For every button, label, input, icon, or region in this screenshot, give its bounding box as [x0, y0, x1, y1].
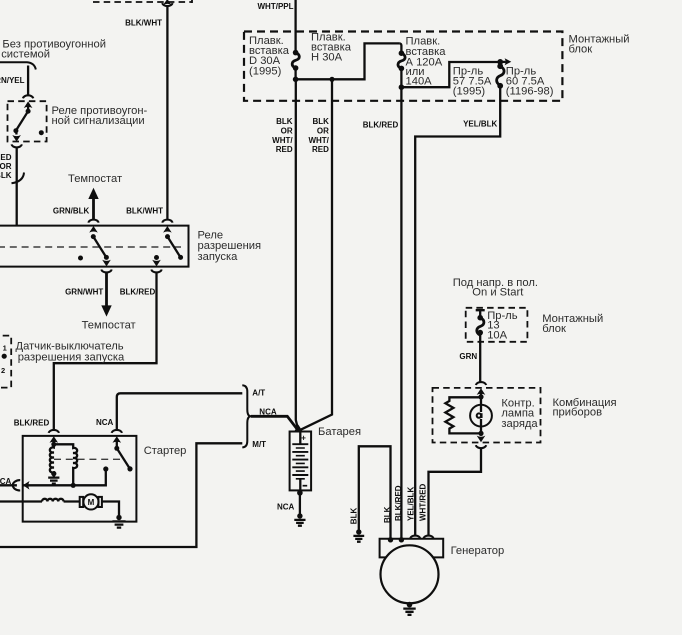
svg-text:OR: OR [0, 162, 12, 171]
svg-text:YEL/BLK: YEL/BLK [463, 119, 497, 128]
labels Контр. лампа заряда [501, 397, 538, 430]
connector into cluster [476, 382, 486, 395]
svg-text:BLK: BLK [0, 171, 12, 180]
connector BLK/RED into starter [49, 430, 59, 443]
wire RED OR BLK down to relay [16, 148, 18, 226]
generator body circle [381, 545, 439, 603]
wire BLK/RED to starter [54, 273, 157, 430]
bracket top-left [0, 62, 36, 69]
starter centerline dashed [54, 458, 121, 460]
ground battery [294, 513, 305, 525]
svg-text:2: 2 [1, 366, 5, 375]
svg-text:Темпостат: Темпостат [82, 320, 136, 332]
resistor in cluster [445, 397, 481, 433]
relay switch 1 [91, 234, 111, 266]
label Датчик-выключатель разрешения запуска [16, 341, 125, 364]
svg-text:On и Start: On и Start [472, 287, 524, 299]
battery [290, 432, 312, 491]
connector into antitheft relay [23, 95, 33, 108]
starter motor circuit [0, 499, 80, 502]
generator terminal cups [410, 536, 434, 539]
svg-text:Стартер: Стартер [144, 445, 187, 457]
label Реле разрешения запуска [198, 230, 262, 263]
sensor pins [1, 344, 7, 375]
bracket left lower [12, 173, 25, 184]
svg-text:NCA: NCA [277, 502, 295, 511]
cluster internal wiring [478, 392, 483, 433]
connector BLK/RED below relay [151, 270, 161, 273]
connector NCA starter left [0, 477, 30, 491]
svg-text:BLK: BLK [383, 506, 392, 523]
antitheft relay box dashed [8, 101, 47, 141]
svg-text:BLK/RED: BLK/RED [120, 287, 156, 296]
wire BLK/RED main (fuse A to generator) [400, 87, 402, 539]
wire BLK OR WHT/RED no.2 to battery [298, 79, 332, 431]
svg-text:BLK/RED: BLK/RED [394, 485, 403, 521]
motor to ground wire [102, 502, 119, 518]
svg-text:BLK/RED: BLK/RED [14, 418, 50, 427]
svg-text:Генератор: Генератор [451, 545, 505, 557]
wire YEL/BLK from fuse 60 [415, 86, 500, 535]
svg-text:RED: RED [0, 153, 12, 162]
label Плавк. вставка D 30A (1995) [249, 35, 290, 78]
svg-text:WHT/PPL: WHT/PPL [258, 2, 294, 11]
wire BLK OR WHT/RED no.1 to battery [296, 79, 299, 431]
starter NCA internal wire [23, 466, 109, 488]
svg-text:приборов: приборов [553, 406, 603, 418]
fusible link D 30A [292, 50, 299, 80]
instrument cluster box dashed [433, 388, 541, 443]
label Пр-ль 60 7.5A (1196-98) [506, 66, 554, 98]
svg-text:RED: RED [276, 145, 293, 154]
svg-text:разрешения запуска: разрешения запуска [18, 351, 125, 363]
svg-text:WHT/RED: WHT/RED [418, 483, 427, 521]
starter switch [114, 439, 132, 472]
junction dot and page arrow [497, 58, 511, 65]
arrow to Темпостат lower [101, 305, 111, 316]
svg-text:GRN: GRN [459, 352, 477, 361]
connector BLK/WHT into relay [162, 220, 172, 233]
wire WHT/PPL [294, 0, 296, 52]
jog wire to fuse 60 [401, 62, 499, 87]
fusible link A 120A [398, 43, 405, 90]
fusebox bus wire [293, 43, 400, 82]
starter solenoid entry dot [51, 439, 56, 447]
wire WHT/RED from cluster to generator [429, 449, 482, 535]
svg-text:BLK: BLK [276, 117, 293, 126]
generator terminal dots [388, 537, 404, 542]
wire NCA to battery [251, 416, 298, 431]
wire A/T from starter [117, 393, 243, 429]
svg-text:(1995): (1995) [453, 85, 486, 97]
wire BLK ground branch generator [353, 446, 390, 541]
label Под напр. в пол. On и Start [453, 277, 538, 299]
svg-text:140А: 140А [406, 76, 433, 88]
label Монтажный блок top [569, 33, 630, 55]
svg-text:H 30A: H 30A [311, 51, 343, 63]
brace A/T NCA M/T [242, 385, 251, 447]
label Реле противоугонной сигнализации [52, 105, 148, 127]
ground in starter coil [48, 474, 59, 484]
antitheft relay switch [12, 105, 44, 142]
charge warning lamp [470, 405, 492, 427]
connector GRN/BLK into relay [88, 220, 98, 233]
ground in starter motor [112, 515, 125, 528]
arrow to Темпостат upper [88, 188, 98, 220]
svg-text:заряда: заряда [501, 418, 538, 430]
svg-text:BLK/WHT: BLK/WHT [125, 18, 162, 27]
svg-text:WHT/: WHT/ [272, 136, 293, 145]
motor M [80, 494, 102, 509]
svg-text:блок: блок [542, 323, 566, 335]
svg-text:BLK: BLK [312, 117, 329, 126]
connector GRN/WHT below relay [101, 270, 111, 309]
svg-text:BLK/WHT: BLK/WHT [126, 206, 163, 215]
fuse 60 7.5A [497, 63, 504, 88]
starter box [23, 436, 137, 522]
connector below cluster [476, 445, 486, 448]
svg-text:+: + [301, 434, 306, 443]
svg-text:M: M [88, 498, 95, 507]
labels Комбинация приборов [553, 397, 617, 419]
svg-text:Батарея: Батарея [318, 426, 361, 438]
battery negative wire [277, 490, 303, 515]
label Монтажный блок right [542, 313, 603, 335]
svg-text:GRN/BLK: GRN/BLK [53, 206, 90, 215]
svg-text:RED: RED [312, 145, 329, 154]
svg-text:OR: OR [317, 126, 329, 135]
svg-text:M/T: M/T [252, 440, 266, 449]
cluster bottom junction [477, 431, 486, 442]
fuse 13 10A [476, 310, 485, 382]
svg-text:1: 1 [3, 344, 7, 353]
svg-text:(1995): (1995) [249, 66, 282, 78]
svg-text:YEL/BLK: YEL/BLK [406, 487, 415, 521]
labels BLK OR WHT/RED no.2 [308, 117, 329, 154]
labels RED OR BLK [0, 153, 12, 180]
connector NCA into starter [112, 430, 122, 443]
svg-text:Темпостат: Темпостат [68, 173, 122, 185]
ground generator [403, 602, 415, 615]
relay lone contact dot [78, 256, 83, 261]
svg-text:системой: системой [1, 48, 50, 60]
svg-text:NCA: NCA [0, 477, 12, 486]
relay switch 2 [152, 234, 183, 266]
svg-text:NCA: NCA [96, 418, 114, 427]
top connector box fragment [93, 0, 192, 3]
svg-text:A/T: A/T [252, 388, 265, 397]
fusebox dashed Монтажный блок [244, 32, 562, 101]
sensor box dashed Датчик-выключатель [0, 336, 11, 388]
relay centerline dashed [0, 246, 181, 248]
svg-text:WHT/: WHT/ [308, 136, 329, 145]
svg-text:GRN/YEL: GRN/YEL [0, 76, 25, 85]
connector below antitheft relay [12, 144, 22, 147]
svg-text:10А: 10А [487, 329, 507, 341]
label Плавк. вставка H 30A [311, 31, 352, 63]
wire M/T [0, 443, 242, 547]
fuse 13 box dashed [466, 308, 528, 342]
wire GRN/YEL [27, 66, 29, 96]
generator terminal box [380, 539, 444, 558]
battery terminal knot [294, 425, 303, 432]
svg-text:запуска: запуска [198, 251, 239, 263]
starter coil 1 [50, 444, 57, 476]
svg-text:GRN/WHT: GRN/WHT [65, 287, 103, 296]
wire BLK/WHT vertical [166, 7, 168, 220]
label Без противоугонной системой [1, 39, 106, 61]
label Пр-ль 13 10A [487, 310, 518, 341]
relay box Реле разрешения запуска [0, 226, 189, 267]
starter coil 2 [54, 444, 77, 485]
svg-text:OR: OR [281, 126, 293, 135]
svg-text:BLK/RED: BLK/RED [363, 121, 399, 130]
connector at top box [162, 0, 172, 6]
svg-text:ной сигнализации: ной сигнализации [52, 115, 145, 127]
svg-text:блок: блок [569, 43, 593, 55]
svg-text:(1196-98): (1196-98) [506, 85, 554, 97]
labels BLK OR WHT/RED no.1 [272, 117, 293, 154]
label Плавк. вставка A 120A или 140A [406, 36, 447, 88]
svg-text:BLK: BLK [349, 508, 358, 525]
label Пр-ль 57 7.5A (1995) [453, 66, 492, 98]
